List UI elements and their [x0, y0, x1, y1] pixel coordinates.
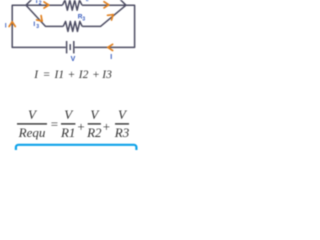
svg-text:I: I — [36, 0, 38, 5]
svg-text:Requ: Requ — [18, 125, 46, 140]
battery V left tall plate — [66, 41, 68, 53]
arrow: R2 branch right near node — [104, 2, 109, 8]
arrow: current I up on left wire — [9, 22, 15, 27]
resistor R2 — [63, 0, 83, 10]
arrow: R3 branch up-right on diagonal — [108, 12, 116, 20]
wire: bottom from battery to bottom-right corner and right vertical — [75, 5, 135, 47]
wire: R1 branch left diagonal stub (cut at top edge) — [26, 0, 33, 5]
fraction bar V/Requ — [17, 123, 47, 124]
svg-text:R2: R2 — [86, 125, 102, 140]
battery V right tall plate — [73, 41, 75, 53]
svg-text:3: 3 — [36, 24, 39, 30]
svg-text:2: 2 — [39, 0, 42, 6]
wire: R3 branch left diagonal from node — [26, 5, 63, 26]
svg-text:R1: R1 — [60, 125, 75, 140]
resistor R3 — [63, 21, 82, 31]
svg-text:+: + — [68, 69, 75, 81]
battery V middle short plate — [69, 44, 71, 50]
fraction bar V/R1 — [61, 123, 75, 124]
arrow: current I left on bottom wire — [108, 44, 113, 50]
svg-text:I: I — [33, 21, 35, 28]
arrow: current I2 right on top branch — [44, 2, 49, 8]
svg-text:I3: I3 — [101, 69, 112, 81]
fraction bar V/R2 — [88, 123, 101, 124]
wire: R2 branch right segment to node — [82, 4, 126, 6]
svg-text:2: 2 — [86, 0, 89, 3]
svg-text:=: = — [43, 69, 50, 81]
svg-text:=: = — [51, 117, 58, 132]
wire: R2 branch left segment — [26, 4, 63, 6]
svg-text:+: + — [93, 69, 100, 81]
svg-text:I1: I1 — [54, 69, 65, 81]
svg-text:V: V — [71, 56, 76, 63]
svg-text:+: + — [77, 119, 84, 134]
highlight box top border (clipped at bottom of image) — [16, 145, 136, 175]
wire: left vertical with corners to battery and to top junction — [12, 5, 66, 47]
svg-text:I: I — [110, 54, 112, 61]
svg-text:+: + — [103, 119, 110, 134]
svg-text:I2: I2 — [78, 69, 89, 81]
wire: R1 branch right diagonal stub (cut at top edge) — [119, 0, 126, 5]
svg-text:R3: R3 — [114, 125, 130, 140]
svg-text:3: 3 — [82, 16, 85, 22]
arrow: current I3 down-right on diagonal — [37, 16, 45, 24]
wire: R3 branch right diagonal up to node — [82, 5, 126, 26]
fraction bar V/R3 — [115, 123, 129, 124]
